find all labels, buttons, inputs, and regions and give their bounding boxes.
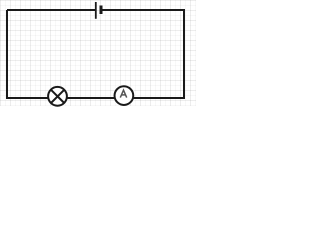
- battery cell: long plate (positive): [95, 2, 97, 19]
- lamp L1: cross stroke 1: [51, 90, 64, 103]
- lamp L1: circle: [48, 87, 67, 106]
- battery cell: short thick plate (negative): [100, 6, 103, 15]
- wire: bottom: [7, 97, 185, 99]
- ammeter A1: letter A: [120, 90, 126, 98]
- wire: right side: [183, 9, 185, 98]
- grid paper background: [0, 0, 196, 106]
- ammeter A1: circle: [115, 86, 134, 105]
- wire: battery to top-right corner: [103, 9, 185, 11]
- wire: top-left segment to battery: [7, 9, 95, 11]
- lamp L1: cross stroke 2: [51, 90, 64, 103]
- wire: left side: [6, 10, 8, 99]
